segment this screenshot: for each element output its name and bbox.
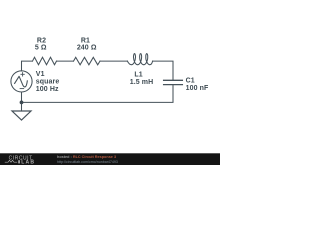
inductor L1 [127, 54, 152, 65]
svg-text:R1: R1 [81, 38, 90, 45]
capacitor C1 top plate [164, 79, 183, 81]
V1 minus sign [20, 88, 24, 90]
logo waveform glyph [5, 160, 17, 162]
wire R1 to L1 [100, 60, 128, 62]
wire L1 to top-right corner, down to C1 [153, 61, 174, 80]
resistor R1 [74, 57, 101, 65]
V1 plus sign [21, 73, 24, 76]
wire R2 to R1 [57, 60, 74, 62]
svg-text:100 nF: 100 nF [186, 85, 209, 92]
svg-text:1.5 mH: 1.5 mH [130, 79, 154, 86]
junction node dot [20, 101, 24, 105]
wire top-left from V1 top to R2 [22, 61, 33, 71]
capacitor C1 bottom plate [164, 84, 183, 86]
svg-text:5 Ω: 5 Ω [35, 45, 47, 52]
svg-text:100 Hz: 100 Hz [36, 86, 59, 93]
wire V1 bottom to ground junction [21, 92, 23, 111]
svg-text:V1: V1 [36, 71, 45, 78]
svg-text:hosted : RLC Circuit Response: hosted : RLC Circuit Response 3 [57, 155, 116, 159]
resistor R2 [33, 57, 57, 65]
svg-text:240 Ω: 240 Ω [77, 45, 97, 52]
svg-text:square: square [36, 79, 60, 86]
svg-text:C1: C1 [186, 78, 195, 85]
svg-text:L1: L1 [134, 71, 142, 78]
ground symbol [12, 111, 31, 120]
svg-text:R2: R2 [37, 38, 46, 45]
wire C1 down and bottom run to left [22, 85, 174, 102]
svg-text:LAB: LAB [21, 160, 35, 165]
footer bar [0, 153, 220, 165]
V1 sine wave [15, 76, 28, 87]
voltage source V1 circle [11, 71, 32, 92]
svg-text:http://circuitlab.com/cmo/nunb: http://circuitlab.com/cmo/nunbar47493 [57, 160, 118, 164]
